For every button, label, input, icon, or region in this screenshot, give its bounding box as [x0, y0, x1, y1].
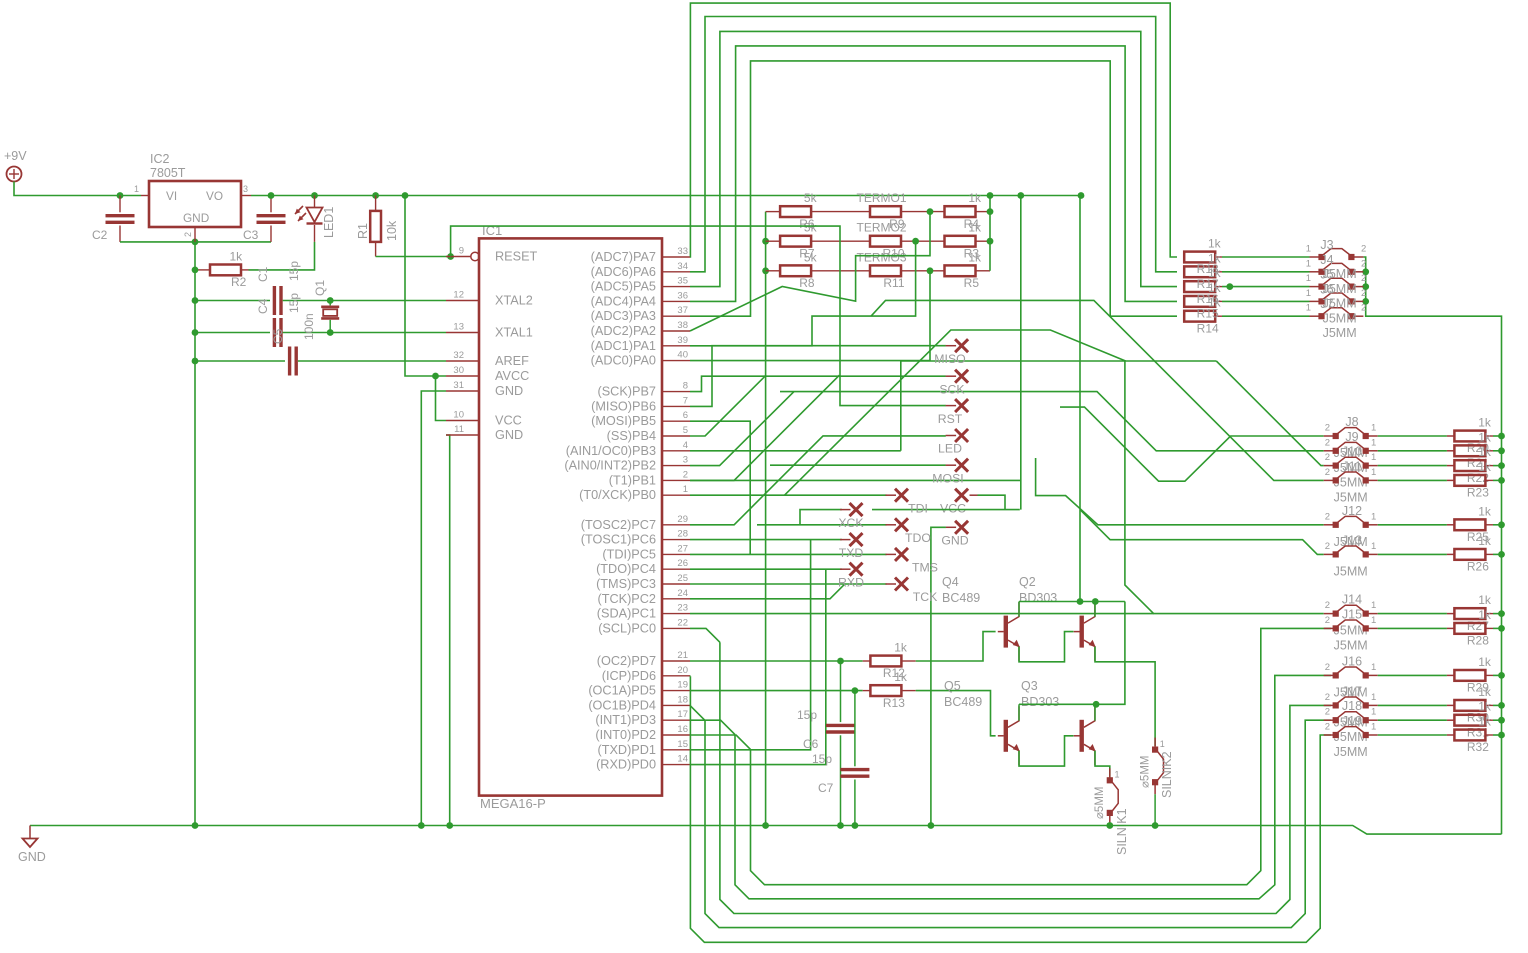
svg-text:1k: 1k: [894, 670, 908, 684]
svg-text:J5MM: J5MM: [1334, 564, 1368, 578]
resistor R14 1k: [1184, 311, 1215, 322]
svg-text:J10: J10: [1342, 445, 1362, 459]
svg-text:2: 2: [683, 469, 688, 480]
svg-text:XCK: XCK: [838, 516, 864, 530]
svg-text:TDI: TDI: [908, 501, 928, 515]
resistor R26 1k: [1447, 553, 1455, 555]
svg-text:37: 37: [677, 305, 688, 316]
pin 39 (ADC1)PA1: [662, 345, 690, 347]
svg-text:1k: 1k: [1478, 445, 1492, 459]
svg-text:LED: LED: [938, 442, 962, 456]
svg-text:(SCL)PC0: (SCL)PC0: [598, 621, 656, 635]
svg-text:1k: 1k: [894, 641, 908, 655]
ground symbol: [29, 826, 31, 839]
pin 14 (RXD)PD0: [662, 764, 690, 766]
node TDI flag: [895, 489, 908, 502]
wire RESET net to RST flag: [451, 226, 946, 406]
svg-text:4: 4: [683, 440, 688, 451]
svg-text:21: 21: [677, 650, 688, 661]
node MOSI flag: [955, 459, 968, 472]
connector J14 J5MM: [1324, 613, 1336, 615]
svg-text:C2: C2: [92, 228, 108, 242]
node SCK flag: [955, 370, 968, 383]
wire PA7-PA3 top ring buses to J3 column: [690, 3, 1177, 257]
pin 3 (AIN0/INT2)PB2: [662, 465, 690, 467]
wire J13 branch: [1081, 510, 1324, 554]
svg-text:1k: 1k: [1478, 460, 1492, 474]
connector J16 J5MM: [1324, 674, 1336, 676]
node VCC flag: [955, 489, 968, 502]
svg-text:8: 8: [683, 381, 688, 392]
capacitor C6 15p: [840, 661, 842, 722]
pin 18 (OC1B)PD4: [662, 704, 690, 706]
svg-text:32: 32: [453, 350, 464, 361]
wire diagonal D1 to J10 chain: [785, 330, 1126, 495]
svg-text:5k: 5k: [804, 191, 818, 205]
pin 10 VCC: [446, 420, 479, 422]
svg-text:1k: 1k: [1208, 266, 1222, 280]
connector J18 J5MM: [1324, 719, 1336, 721]
svg-text:IC1: IC1: [482, 223, 502, 238]
svg-text:1k: 1k: [1478, 430, 1492, 444]
svg-text:TXD: TXD: [839, 546, 864, 560]
capacitor C5 100n: [195, 360, 285, 362]
wire LED1 to R2: [249, 242, 315, 270]
wire PA1 to TERMO2 sense: [690, 241, 916, 346]
node GND flag: [955, 521, 968, 534]
svg-text:XTAL1: XTAL1: [495, 326, 533, 340]
connector J3 J5MM: [1310, 256, 1322, 258]
pin 9 RESET: [446, 256, 471, 258]
connector SILNIK1: [1109, 768, 1111, 780]
node TMS flag: [895, 548, 908, 561]
svg-text:J12: J12: [1342, 504, 1362, 518]
wire PB4 step net: [690, 450, 901, 452]
svg-text:2: 2: [1325, 467, 1330, 478]
wire collector node to +5V vertical: [1079, 196, 1081, 602]
svg-text:1k: 1k: [1478, 593, 1492, 607]
wire VCC pin 10: [436, 376, 447, 421]
svg-text:J17: J17: [1342, 684, 1362, 698]
svg-text:1: 1: [1371, 437, 1376, 448]
svg-text:(OC2)PD7: (OC2)PD7: [597, 654, 656, 668]
wire +9V to regulator input: [14, 182, 141, 196]
svg-text:2: 2: [1325, 423, 1330, 434]
svg-text:J7: J7: [1320, 297, 1333, 311]
svg-text:(AIN0/INT2)PB2: (AIN0/INT2)PB2: [564, 459, 656, 473]
svg-text:1: 1: [1371, 615, 1376, 626]
svg-text:(ADC0)PA0: (ADC0)PA0: [591, 354, 656, 368]
wire Q2 emitter to SILNIK2: [1095, 647, 1155, 746]
svg-text:R28: R28: [1467, 634, 1489, 648]
resistor R22 1k: [1447, 465, 1455, 467]
node LED flag: [955, 429, 968, 442]
svg-text:RXD: RXD: [838, 575, 864, 589]
svg-text:(SS)PB4: (SS)PB4: [607, 429, 656, 443]
svg-text:J13: J13: [1342, 533, 1362, 547]
svg-text:J5MM: J5MM: [1323, 326, 1357, 340]
resistor R4 1k: [945, 206, 976, 217]
resistor R20 1k: [1447, 435, 1455, 437]
resistor R23 1k: [1447, 479, 1455, 481]
svg-text:10k: 10k: [385, 220, 399, 241]
svg-text:2: 2: [1325, 600, 1330, 611]
svg-text:TCK: TCK: [913, 590, 938, 604]
svg-text:(TXD)PD1: (TXD)PD1: [597, 743, 656, 757]
svg-text:J11: J11: [1342, 459, 1361, 473]
svg-text:GND: GND: [495, 384, 523, 398]
pin 5 (SS)PB4: [662, 435, 690, 437]
wire pin23 SDA to J14: [690, 613, 1154, 615]
capacitor C1 15p: [195, 300, 270, 302]
node +9V supply symbol: [7, 167, 22, 182]
resistor R32 1k: [1447, 734, 1455, 736]
pin 4 (AIN1/OC0)PB3: [662, 450, 690, 452]
connector J7 J5MM: [1310, 315, 1322, 317]
connector J9 J5MM: [1324, 450, 1336, 452]
svg-text:C1: C1: [256, 266, 270, 282]
pin 22 (SCL)PC0: [662, 627, 690, 629]
svg-text:VCC: VCC: [940, 501, 966, 515]
svg-text:5k: 5k: [804, 221, 818, 235]
microcontroller IC1 MEGA16-P: [479, 238, 662, 795]
pin 17 (INT1)PD3: [662, 719, 690, 721]
pin 8 (SCK)PB7: [662, 391, 690, 393]
wire TXD net: [690, 540, 811, 750]
svg-text:2: 2: [1361, 273, 1366, 284]
node TDO flag: [895, 518, 908, 531]
transistor Q3 BD303: [1080, 720, 1084, 752]
svg-text:1k: 1k: [1478, 416, 1492, 430]
svg-text:12: 12: [453, 290, 464, 301]
diode LED1: [314, 196, 316, 208]
svg-text:35: 35: [677, 276, 688, 287]
svg-text:J15: J15: [1342, 607, 1362, 621]
svg-text:J18: J18: [1342, 699, 1362, 713]
pin 36 (ADC4)PA4: [662, 300, 690, 302]
pin 37 (ADC3)PA3: [662, 315, 690, 317]
resistor R25 1k: [1447, 524, 1455, 526]
wire AVCC from +5V rail: [405, 196, 446, 377]
svg-text:GND: GND: [183, 211, 209, 225]
wire J8 branch: [1060, 407, 1324, 481]
pin 25 (TMS)PC3: [662, 583, 690, 585]
crystal Q1: [329, 301, 331, 306]
transistor Q4 BC489: [1004, 616, 1008, 648]
connector J8 J5MM: [1324, 435, 1336, 437]
svg-text:1k: 1k: [1478, 685, 1492, 699]
svg-text:34: 34: [677, 261, 688, 272]
transistor Q2 BD303: [1080, 616, 1084, 648]
svg-text:⌀5MM: ⌀5MM: [1094, 787, 1106, 819]
svg-text:J9: J9: [1345, 430, 1358, 444]
pin 20 (ICP)PD6: [662, 675, 690, 677]
svg-text:1k: 1k: [1478, 608, 1492, 622]
connector J13 J5MM: [1324, 553, 1336, 555]
svg-text:17: 17: [677, 709, 688, 720]
svg-text:AREF: AREF: [495, 354, 529, 368]
wire R12 to Q4 base: [916, 632, 996, 661]
svg-text:J6: J6: [1320, 282, 1333, 296]
svg-text:(TDO)PC4: (TDO)PC4: [596, 562, 656, 576]
svg-text:25: 25: [677, 573, 688, 584]
svg-text:TERMO2: TERMO2: [856, 221, 906, 235]
svg-text:R14: R14: [1197, 321, 1219, 335]
wire PA2 to TERMO1 sense: [690, 212, 930, 331]
resistor R5 1k: [945, 265, 976, 276]
wire GND vertical from regulator: [194, 242, 196, 826]
wire LED net from pin29 diagonal: [690, 436, 946, 525]
pin 19 (OC1A)PD5: [662, 690, 690, 692]
svg-text:27: 27: [677, 543, 688, 554]
wire pin16 INT0 to ring: [690, 735, 751, 749]
svg-text:BC489: BC489: [944, 695, 982, 709]
svg-text:RESET: RESET: [495, 250, 538, 264]
wire GND pin 31: [421, 391, 446, 826]
svg-text:SCK: SCK: [939, 382, 965, 396]
svg-text:J5MM: J5MM: [1334, 490, 1368, 504]
wire TERMO sense junctions: [927, 208, 934, 215]
connector J19 J5MM: [1324, 734, 1336, 736]
svg-text:XTAL2: XTAL2: [495, 294, 533, 308]
svg-text:1: 1: [1371, 692, 1376, 703]
svg-text:1: 1: [1306, 244, 1311, 255]
svg-text:Q1: Q1: [313, 280, 327, 296]
svg-text:BD303: BD303: [1021, 695, 1059, 709]
resistor R6 5k: [766, 211, 780, 213]
svg-text:Q5: Q5: [944, 679, 961, 693]
wire J10 branch: [1216, 361, 1323, 466]
connector J11 J5MM: [1324, 479, 1336, 481]
svg-text:2: 2: [1325, 692, 1330, 703]
wire R1 to RESET: [376, 256, 451, 258]
resistor R9 TERMO1: [870, 206, 901, 217]
resistor R27 1k: [1447, 613, 1455, 615]
pin 16 (INT0)PD2: [662, 734, 690, 736]
svg-text:1: 1: [1371, 467, 1376, 478]
resistor R13 1k: [863, 690, 870, 692]
svg-text:1k: 1k: [968, 191, 982, 205]
svg-text:13: 13: [453, 322, 464, 333]
svg-text:1: 1: [1371, 541, 1376, 552]
svg-text:(T1)PB1: (T1)PB1: [609, 473, 656, 487]
resistor R28 1k: [1447, 627, 1455, 629]
pin 38 (ADC2)PA2: [662, 330, 690, 332]
wire TMS net: [690, 553, 887, 555]
svg-text:Q3: Q3: [1021, 679, 1038, 693]
svg-text:Q2: Q2: [1019, 575, 1036, 589]
svg-text:1k: 1k: [968, 221, 982, 235]
svg-text:1k: 1k: [230, 249, 244, 263]
svg-text:R26: R26: [1467, 560, 1489, 574]
svg-text:20: 20: [677, 665, 688, 676]
svg-text:LED1: LED1: [322, 207, 336, 238]
node XCK flag: [850, 503, 863, 516]
svg-text:40: 40: [677, 350, 688, 361]
svg-text:(TMS)PC3: (TMS)PC3: [596, 577, 656, 591]
svg-text:2: 2: [1325, 452, 1330, 463]
wire step vertical x900: [901, 361, 1217, 451]
svg-text:Q4: Q4: [942, 575, 959, 589]
pin 13 XTAL1: [446, 332, 479, 334]
resistor R21 1k: [1447, 450, 1455, 452]
wire IC2 pin stubs: [141, 195, 149, 197]
svg-text:TERMO1: TERMO1: [856, 191, 906, 205]
svg-text:1: 1: [1371, 452, 1376, 463]
svg-text:J5MM: J5MM: [1334, 638, 1368, 652]
svg-text:AVCC: AVCC: [495, 369, 529, 383]
wire pin24 to TCK join: [690, 584, 844, 598]
svg-text:1k: 1k: [1208, 296, 1222, 310]
pin 40 (ADC0)PA0: [662, 360, 690, 362]
svg-text:30: 30: [453, 365, 464, 376]
svg-text:R23: R23: [1467, 486, 1489, 500]
svg-text:(SCK)PB7: (SCK)PB7: [597, 385, 656, 399]
svg-text:VCC: VCC: [495, 414, 522, 428]
svg-text:TMS: TMS: [912, 561, 938, 575]
svg-text:TDO: TDO: [905, 531, 931, 545]
svg-text:(T0/XCK)PB0: (T0/XCK)PB0: [579, 488, 656, 502]
wire J12 branch: [1036, 458, 1324, 525]
svg-text:C6: C6: [803, 737, 819, 751]
resistor R1 10k: [375, 196, 377, 211]
wire J14 vertical riser: [1125, 361, 1324, 614]
svg-text:J8: J8: [1345, 415, 1358, 429]
svg-text:(TCK)PC2: (TCK)PC2: [597, 592, 656, 606]
svg-text:2: 2: [1361, 258, 1366, 269]
wire pin5 diagonal: [690, 375, 766, 436]
svg-text:TERMO3: TERMO3: [856, 250, 906, 264]
svg-text:VI: VI: [166, 189, 177, 203]
svg-text:C7: C7: [818, 781, 834, 795]
node RST flag: [955, 399, 968, 412]
wire J3 column GND bus: [1363, 257, 1501, 834]
svg-text:SILNIK2: SILNIK2: [1160, 751, 1174, 798]
svg-text:38: 38: [677, 320, 688, 331]
wire Q4 emitter to Q2 base: [1019, 632, 1074, 662]
svg-text:MOSI: MOSI: [932, 471, 963, 485]
svg-text:IC2: IC2: [150, 152, 170, 166]
svg-text:⌀5MM: ⌀5MM: [1140, 756, 1152, 788]
svg-text:C5: C5: [271, 328, 285, 344]
wire collector link to Q3 Q5: [1019, 602, 1125, 705]
wire pin21 OC2 row: [690, 660, 863, 662]
svg-text:2: 2: [1325, 662, 1330, 673]
svg-text:1: 1: [1371, 662, 1376, 673]
wire pin6 PB5 step down: [690, 421, 750, 554]
pin 1 (T0/XCK)PB0: [662, 494, 690, 496]
svg-text:(ADC6)PA6: (ADC6)PA6: [591, 265, 656, 279]
svg-text:2: 2: [1325, 437, 1330, 448]
svg-text:MISO: MISO: [934, 352, 965, 366]
svg-text:(TOSC2)PC7: (TOSC2)PC7: [581, 518, 656, 532]
svg-text:15p: 15p: [287, 293, 301, 313]
svg-text:(TDI)PC5: (TDI)PC5: [602, 547, 656, 561]
wire PB1 long net: [690, 479, 1021, 481]
pin 33 (ADC7)PA7: [662, 256, 690, 258]
resistor R17 1k: [1184, 266, 1215, 277]
svg-text:1: 1: [1115, 770, 1120, 780]
svg-text:15: 15: [677, 739, 688, 750]
svg-text:(TOSC1)PC6: (TOSC1)PC6: [581, 533, 656, 547]
capacitor C7 15p: [854, 691, 856, 767]
wire pin3 diagonal: [690, 392, 794, 466]
svg-text:9: 9: [459, 246, 464, 257]
svg-text:MEGA16-P: MEGA16-P: [480, 796, 546, 811]
svg-text:22: 22: [677, 617, 688, 628]
svg-text:11: 11: [454, 424, 464, 435]
svg-text:C3: C3: [243, 228, 259, 242]
resistor R18 1k: [1184, 252, 1215, 263]
wire MISO net: [690, 346, 946, 407]
pin 29 (TOSC2)PC7: [662, 524, 690, 526]
svg-text:GND: GND: [18, 850, 46, 864]
resistor R29 1k: [1447, 674, 1455, 676]
svg-text:J4: J4: [1320, 253, 1333, 267]
pin 30 AVCC: [446, 375, 479, 377]
wire 1k pull-ups to +5V rail: [989, 196, 991, 271]
svg-text:J5MM: J5MM: [1334, 745, 1368, 759]
pin 26 (TDO)PC4: [662, 568, 690, 570]
node MISO flag: [955, 339, 968, 352]
svg-text:R13: R13: [883, 696, 905, 710]
pin 28 (TOSC1)PC6: [662, 539, 690, 541]
svg-text:1k: 1k: [1478, 700, 1492, 714]
wire XCK net: [800, 510, 842, 525]
resistor R7 5k: [766, 240, 780, 242]
svg-text:(OC1A)PD5: (OC1A)PD5: [588, 684, 656, 698]
svg-text:1: 1: [134, 184, 139, 194]
svg-text:1: 1: [1371, 707, 1376, 718]
resistor R2 1k: [241, 269, 249, 271]
svg-text:(ADC3)PA3: (ADC3)PA3: [591, 309, 656, 323]
wire TDO net: [757, 524, 887, 526]
svg-text:1: 1: [1371, 600, 1376, 611]
svg-text:23: 23: [677, 603, 688, 614]
resistor R3 1k: [945, 236, 976, 247]
svg-text:1k: 1k: [1478, 715, 1492, 729]
svg-text:3: 3: [683, 455, 688, 466]
svg-text:1: 1: [1371, 722, 1376, 733]
capacitor C2: [119, 196, 121, 213]
resistor R31 1k: [1447, 719, 1455, 721]
pin 6 (MOSI)PB5: [662, 420, 690, 422]
svg-text:28: 28: [677, 529, 688, 540]
svg-text:(RXD)PD0: (RXD)PD0: [596, 758, 656, 772]
svg-text:3: 3: [243, 184, 248, 194]
svg-text:+9V: +9V: [4, 149, 27, 163]
pin 32 AREF: [446, 360, 479, 362]
svg-text:1: 1: [1306, 258, 1311, 269]
svg-text:2: 2: [1361, 244, 1366, 255]
wire Q3 emitter to SILNIK1: [1095, 751, 1110, 777]
node RXD flag: [850, 563, 863, 576]
svg-text:5k: 5k: [804, 250, 818, 264]
wire pin18 OC1B to ring: [690, 705, 705, 720]
wire Q4 Q2 collector node: [1019, 601, 1125, 603]
svg-text:15p: 15p: [797, 708, 817, 722]
svg-text:BC489: BC489: [942, 591, 980, 605]
pin 23 (SDA)PC1: [662, 613, 690, 615]
svg-text:RST: RST: [938, 412, 963, 426]
resistor R11 TERMO3: [870, 265, 901, 276]
wire pin2 diagonal: [690, 375, 839, 480]
svg-text:(ADC4)PA4: (ADC4)PA4: [591, 294, 656, 308]
svg-text:(INT1)PD3: (INT1)PD3: [595, 713, 656, 727]
pin 15 (TXD)PD1: [662, 749, 690, 751]
wire SCK net: [690, 376, 946, 391]
svg-text:14: 14: [677, 754, 688, 765]
